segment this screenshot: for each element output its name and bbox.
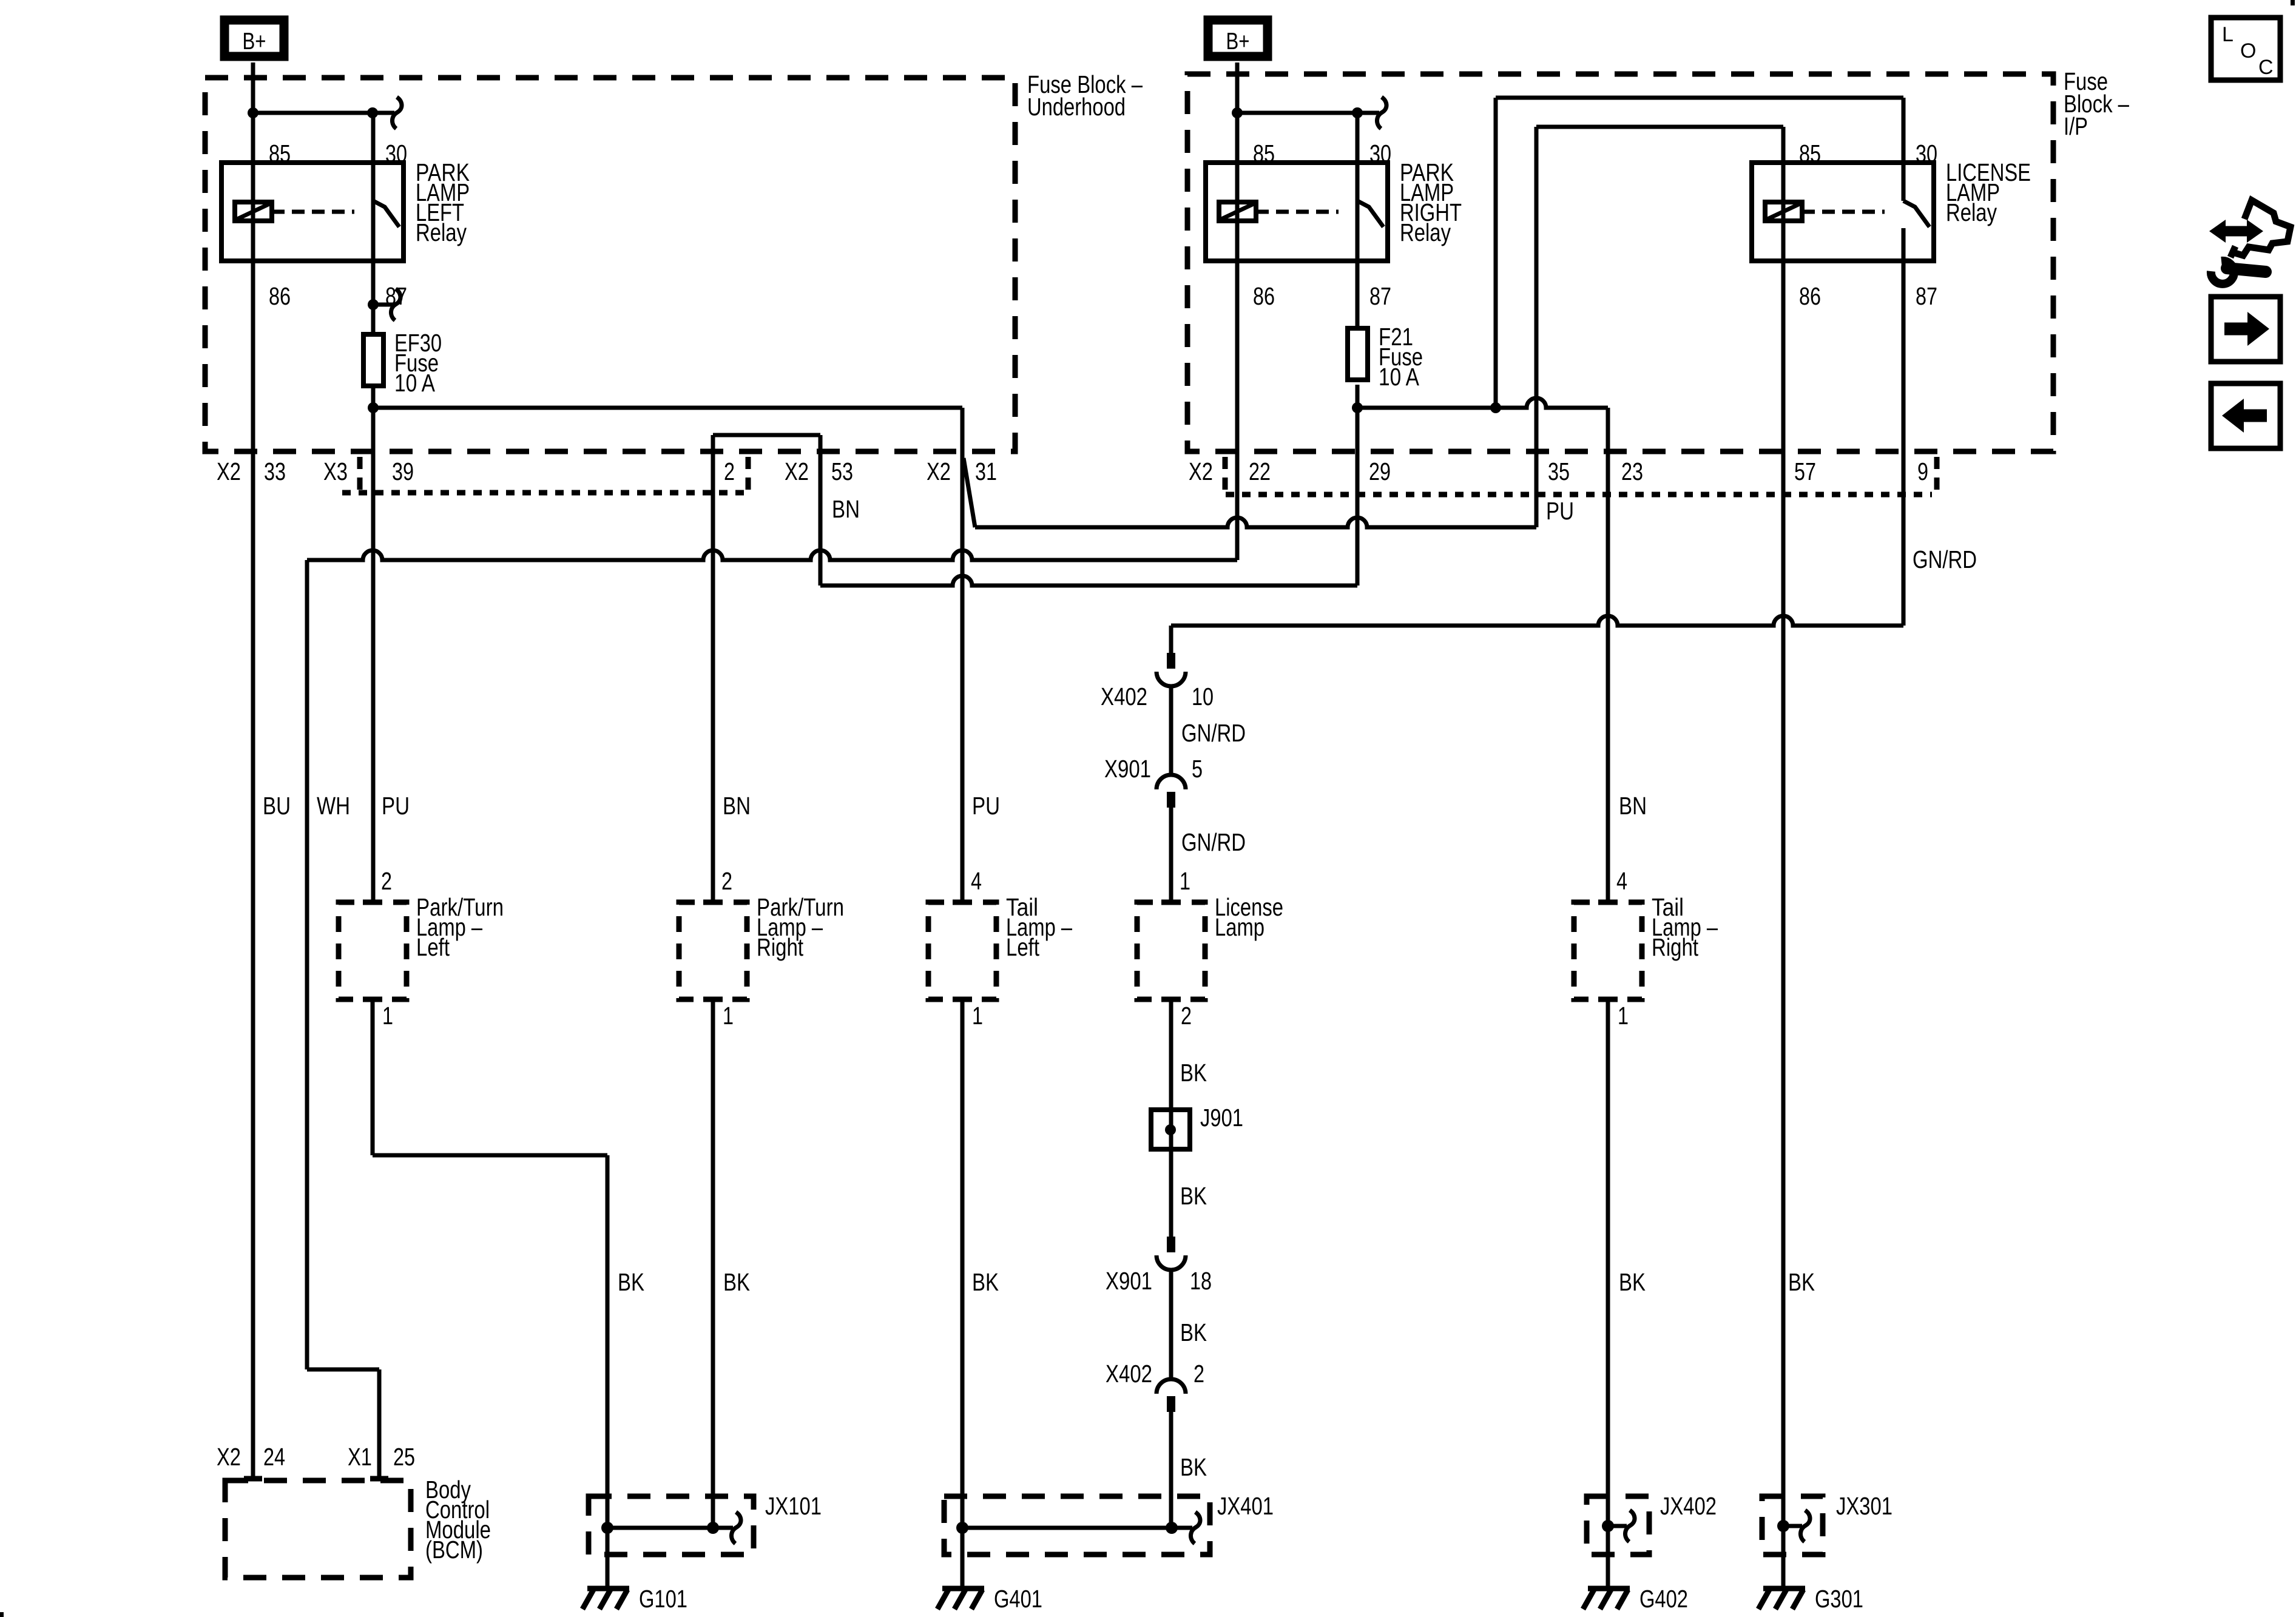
svg-text:2: 2: [721, 867, 732, 895]
wire WH jog: [307, 1368, 379, 1372]
svg-text:BK: BK: [1180, 1318, 1207, 1346]
junction block JX402 dashed outline: [1587, 1496, 1649, 1555]
svg-text:1: 1: [1180, 867, 1190, 895]
lamp Tail Lamp - Right: [1574, 902, 1642, 999]
page corner mark top right: [2291, 0, 2295, 5]
svg-text:5: 5: [1192, 755, 1203, 783]
wire BK between connectors: [1169, 1270, 1173, 1379]
svg-text:X901: X901: [1104, 755, 1151, 783]
svg-text:GN/RD: GN/RD: [1181, 828, 1246, 856]
junction: [1352, 107, 1363, 118]
pin T-bar BCM 24: [244, 1476, 262, 1482]
svg-text:86: 86: [269, 282, 291, 310]
wire license relay pin 87 GN/RD feed: [1171, 616, 1903, 626]
svg-text:JX402: JX402: [1660, 1492, 1717, 1520]
lamp Park/Turn Lamp - Right: [679, 902, 747, 999]
lamp License Lamp: [1137, 902, 1205, 999]
svg-text:O: O: [2240, 39, 2256, 62]
wire WH drop to BCM: [305, 560, 309, 1369]
svg-text:2: 2: [381, 867, 392, 895]
svg-text:G402: G402: [1639, 1585, 1688, 1613]
wire pin 30/87 vertical to fuse EF30: [371, 113, 376, 334]
svg-text:10: 10: [1192, 683, 1214, 711]
svg-text:BN: BN: [723, 792, 751, 820]
junction JX401 left: [956, 1522, 968, 1534]
svg-text:BK: BK: [1180, 1182, 1207, 1210]
svg-text:30: 30: [1916, 140, 1937, 167]
svg-text:Relay: Relay: [1400, 218, 1451, 246]
junction JX301: [1777, 1520, 1789, 1532]
svg-text:GN/RD: GN/RD: [1913, 545, 1977, 573]
svg-text:BK: BK: [1180, 1059, 1207, 1087]
wire B+ to relay pin 30 link (right): [1237, 111, 1379, 115]
icon arrow-left box: [2211, 383, 2280, 448]
stub to curl: [1608, 1524, 1627, 1528]
wire GN/RD drop to X402: [1169, 626, 1173, 653]
svg-text:24: 24: [263, 1443, 285, 1471]
pin T-bar BCM 25: [370, 1476, 388, 1482]
continuation hook at pin 30 feed (left): [392, 97, 402, 129]
svg-text:X402: X402: [1106, 1360, 1152, 1388]
svg-text:85: 85: [1253, 140, 1275, 167]
svg-text:35: 35: [1548, 457, 1570, 485]
icon LOC box: [2211, 18, 2280, 80]
svg-text:Left: Left: [416, 933, 450, 961]
wire into license relay pin 30: [1902, 98, 1906, 163]
svg-text:1: 1: [972, 1002, 983, 1030]
svg-text:53: 53: [831, 457, 853, 485]
junction JX401 right: [1166, 1522, 1178, 1534]
svg-text:X3: X3: [323, 457, 348, 485]
junction: [248, 107, 258, 118]
svg-text:JX101: JX101: [765, 1492, 822, 1520]
wire Tail Lamp Left pin 1 BK to JX401: [961, 999, 965, 1528]
splice continuation curl JX402: [1625, 1510, 1635, 1542]
wire pin 31 diagonal jog: [964, 458, 975, 527]
wire B+ right / relay coil / down to pin 22 corner: [1235, 62, 1240, 560]
wire JX402 to ground: [1606, 1526, 1610, 1588]
svg-text:4: 4: [1616, 867, 1627, 895]
wire WH into BCM pin 25: [377, 1369, 382, 1479]
svg-text:BK: BK: [1619, 1268, 1646, 1296]
wire pin 23 / BN to Tail Lamp Right: [1606, 408, 1610, 902]
svg-text:I/P: I/P: [2064, 112, 2088, 140]
wire EF30 output to pin 31 (inside underhood block): [373, 406, 962, 410]
svg-text:L: L: [2222, 23, 2234, 46]
connector X2 I/P extent dotted line: [1226, 492, 1932, 498]
svg-text:(BCM): (BCM): [425, 1536, 483, 1564]
svg-text:JX401: JX401: [1217, 1492, 1274, 1520]
fuse EF30 10A: [363, 334, 383, 386]
wire F21 output down through pin 29: [1356, 385, 1360, 586]
svg-text:10 A: 10 A: [1379, 363, 1420, 391]
splice continuation curl JX101: [731, 1512, 741, 1544]
continuation hook at pin 30 feed (right): [1377, 97, 1386, 129]
connector X3 extent dotted line: [342, 490, 745, 496]
svg-text:1: 1: [1618, 1002, 1629, 1030]
ground G401: [942, 1586, 984, 1592]
junction at pin 87 node: [368, 299, 379, 310]
junction block JX101 dashed outline: [589, 1496, 754, 1555]
connector X402 pin 2: [1156, 1379, 1186, 1394]
wire Park/Turn Right pin 1 BK to JX101: [711, 999, 715, 1527]
svg-text:33: 33: [264, 457, 286, 485]
relay PARK LAMP LEFT: [221, 163, 403, 261]
svg-text:Left: Left: [1006, 933, 1039, 961]
svg-text:2: 2: [1194, 1360, 1204, 1388]
svg-text:X2: X2: [217, 1443, 241, 1471]
svg-text:30: 30: [385, 140, 407, 167]
fuse block - underhood dashed outline: [205, 78, 1015, 451]
wire B+ left / BU run to BCM pin 24: [251, 62, 255, 1479]
wire pin 2 / BN to Park-Turn Lamp Right: [711, 435, 715, 902]
icon vehicle outline with double arrow and wrench: [2230, 200, 2291, 257]
svg-text:85: 85: [1799, 140, 1821, 167]
fuse F21 10A: [1348, 328, 1368, 380]
wire across to license relay pin 30: [1496, 96, 1903, 100]
svg-text:Lamp: Lamp: [1215, 913, 1264, 941]
svg-text:BN: BN: [832, 495, 860, 523]
splice J901: [1151, 1110, 1190, 1149]
svg-text:X2: X2: [1189, 457, 1213, 485]
ground G402: [1588, 1586, 1630, 1592]
wire pin 31 to pin 35 (license coil feed): [975, 518, 1536, 527]
wire JX301 to ground: [1781, 1526, 1786, 1588]
svg-text:G401: G401: [994, 1585, 1042, 1613]
svg-text:G301: G301: [1815, 1585, 1863, 1613]
svg-text:31: 31: [975, 457, 997, 485]
wire license relay pin 85 / pin 86 / BK to JX301: [1781, 127, 1786, 1527]
svg-text:X2: X2: [785, 457, 809, 485]
svg-text:22: 22: [1249, 457, 1271, 485]
power symbol B+ (left): [225, 20, 284, 56]
svg-text:87: 87: [1369, 282, 1391, 310]
ground G301: [1763, 1586, 1805, 1592]
svg-text:86: 86: [1253, 282, 1275, 310]
wire pin 29 to pin 53 (right park lamp feed): [820, 576, 1357, 586]
junction JX101 right: [707, 1522, 719, 1534]
svg-text:X2: X2: [927, 457, 951, 485]
connector X901 pin 18: [1167, 1237, 1175, 1252]
lamp Tail Lamp - Left: [928, 902, 996, 999]
svg-text:B+: B+: [243, 29, 266, 55]
junction EF30 output: [368, 402, 379, 413]
page corner mark bottom left: [0, 1612, 4, 1617]
svg-text:B+: B+: [1226, 29, 1250, 55]
splice continuation curl JX301: [1800, 1510, 1810, 1542]
svg-text:Right: Right: [757, 933, 803, 961]
svg-text:Underhood: Underhood: [1027, 93, 1126, 121]
ground G101: [587, 1586, 629, 1592]
wire BK jog: [373, 1153, 607, 1158]
wire pin 31 / PU to Tail Lamp Left: [961, 408, 965, 902]
svg-text:BN: BN: [1619, 792, 1647, 820]
power symbol B+ (right): [1208, 20, 1268, 56]
svg-text:18: 18: [1190, 1267, 1212, 1295]
junction to license relay pin 30 feed: [1490, 402, 1501, 413]
wire splice bus inside JX101: [607, 1526, 733, 1530]
svg-text:X402: X402: [1101, 683, 1147, 711]
svg-text:PU: PU: [382, 792, 410, 820]
junction F21 output: [1352, 402, 1363, 413]
wire F21 output to pin 23 (inside I/P block): [1357, 398, 1608, 408]
wire GN/RD between connectors: [1169, 686, 1173, 775]
connector separator: [746, 457, 751, 490]
connector separator: [1223, 457, 1228, 490]
svg-text:1: 1: [723, 1002, 734, 1030]
wire pin 22 to WH drop (BCM feed right coil): [307, 550, 1237, 560]
relay LICENSE LAMP: [1752, 163, 1934, 261]
svg-text:Relay: Relay: [416, 218, 467, 246]
wire BK to JX101 and G101: [606, 1155, 610, 1588]
svg-text:39: 39: [392, 457, 414, 485]
svg-text:BK: BK: [723, 1268, 750, 1296]
module BCM dashed outline: [225, 1480, 411, 1578]
wrench: [2211, 261, 2234, 284]
svg-text:23: 23: [1621, 457, 1643, 485]
svg-text:85: 85: [269, 140, 291, 167]
svg-text:87: 87: [1916, 282, 1937, 310]
svg-text:J901: J901: [1200, 1104, 1243, 1132]
icon arrow-right box: [2211, 297, 2280, 362]
junction JX402: [1602, 1520, 1614, 1532]
svg-text:10 A: 10 A: [394, 369, 436, 397]
connector separator: [1934, 457, 1940, 490]
wire license relay pin 87 down through pin 9: [1902, 261, 1906, 626]
wire splice bus inside JX401: [962, 1526, 1192, 1530]
junction JX101 left: [601, 1522, 613, 1534]
svg-text:57: 57: [1794, 457, 1816, 485]
svg-text:G101: G101: [639, 1585, 687, 1613]
wire pin 2 to pin 53 (inside underhood block): [713, 433, 820, 437]
svg-text:1: 1: [382, 1002, 393, 1030]
svg-text:2: 2: [1181, 1002, 1192, 1030]
wire up-riser to license relay pin 30: [1494, 98, 1498, 408]
svg-text:Relay: Relay: [1946, 198, 1997, 226]
svg-text:BK: BK: [972, 1268, 999, 1296]
stub to curl: [1783, 1524, 1802, 1528]
wire GN/RD to License Lamp pin 1: [1169, 808, 1173, 902]
svg-text:Right: Right: [1652, 933, 1698, 961]
svg-text:X901: X901: [1106, 1267, 1152, 1295]
svg-text:BU: BU: [263, 792, 291, 820]
wire B+ to relay pin 30 link (left): [253, 111, 394, 115]
svg-text:GN/RD: GN/RD: [1181, 719, 1246, 747]
junction: [1232, 107, 1243, 118]
svg-text:30: 30: [1369, 140, 1391, 167]
junction: [367, 107, 378, 118]
splice continuation curl JX401: [1190, 1512, 1200, 1544]
continuation hook at pin 87 node: [391, 289, 400, 320]
junction block JX401 dashed outline: [944, 1496, 1210, 1555]
lamp Park/Turn Lamp - Left: [339, 902, 407, 999]
svg-text:C: C: [2258, 56, 2274, 79]
svg-text:JX301: JX301: [1836, 1492, 1893, 1520]
connector X402 pin 10: [1167, 653, 1175, 669]
wire JX401 to ground: [961, 1528, 965, 1588]
connector separator: [357, 457, 363, 490]
svg-text:BK: BK: [1788, 1268, 1815, 1296]
relay PARK LAMP RIGHT: [1206, 163, 1388, 261]
wire across to license relay pin 85: [1536, 125, 1783, 129]
svg-text:86: 86: [1799, 282, 1821, 310]
svg-text:X2: X2: [217, 457, 241, 485]
connector X901 pin 5: [1156, 775, 1186, 789]
svg-text:BK: BK: [1180, 1453, 1207, 1481]
svg-text:4: 4: [971, 867, 982, 895]
svg-text:9: 9: [1917, 457, 1928, 485]
wire Tail Lamp Right pin 1 BK to JX402: [1606, 999, 1610, 1527]
svg-text:2: 2: [724, 457, 735, 485]
wire BK to JX401: [1169, 1412, 1173, 1527]
wire pin 30/87 vertical to fuse F21: [1356, 113, 1360, 328]
wire EF30 output / PU to Park-Turn Lamp Left: [371, 388, 376, 902]
svg-text:X1: X1: [348, 1443, 372, 1471]
svg-text:WH: WH: [317, 792, 350, 820]
wire pin 35 riser to license relay pin 85: [1535, 127, 1539, 527]
wire Park/Turn Left pin 1 BK: [371, 999, 375, 1155]
svg-text:25: 25: [393, 1443, 415, 1471]
junction block JX301 dashed outline: [1762, 1496, 1823, 1555]
svg-text:29: 29: [1369, 457, 1391, 485]
wire License Lamp pin 2 BK: [1169, 999, 1173, 1237]
stub to continuation hook: [373, 303, 393, 307]
svg-text:PU: PU: [1546, 497, 1574, 525]
svg-text:BK: BK: [618, 1268, 644, 1296]
wire pin 53 riser: [819, 435, 823, 586]
svg-text:PU: PU: [972, 792, 1000, 820]
fuse block - I/P dashed outline: [1187, 74, 2053, 451]
